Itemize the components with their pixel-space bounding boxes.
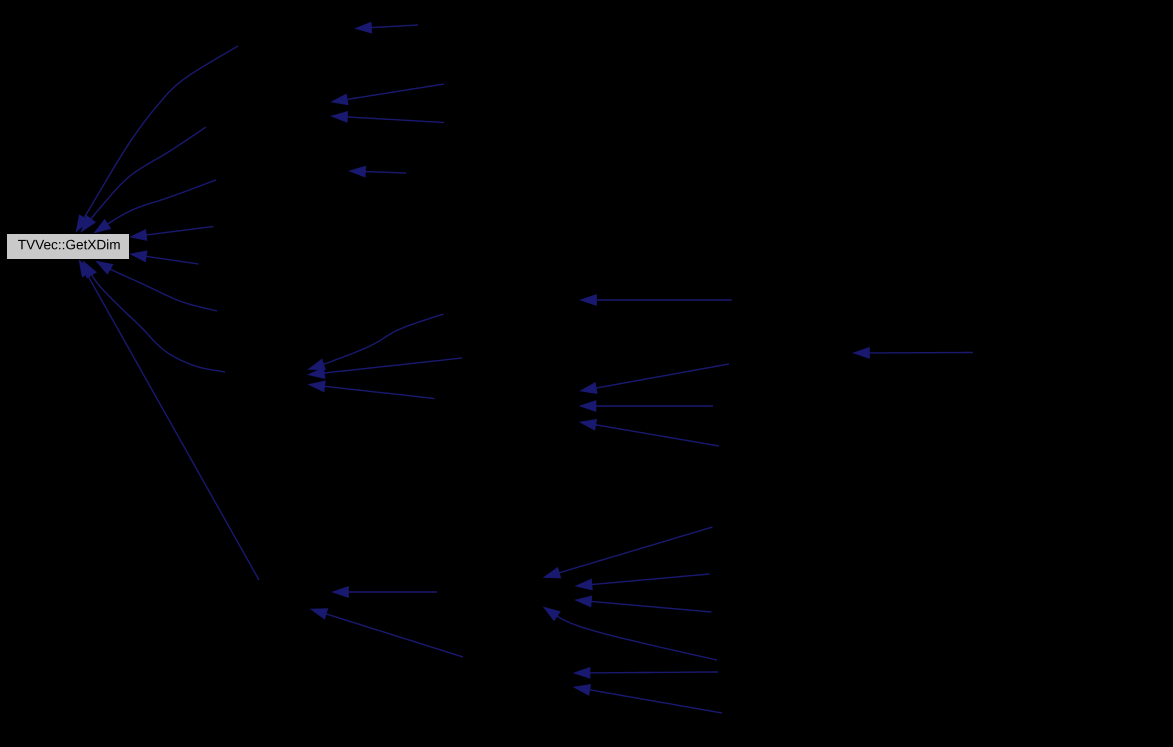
edge A1: caller curve top-1 -> TVVec::GetXDim (76, 46, 238, 232)
edge F2: line into node N3 bottom (311, 609, 464, 657)
edge G2: line into node N4 right upper (576, 574, 710, 590)
edge B1: top arrow (355, 22, 418, 33)
edge B3: upper cluster arrow 2 (331, 111, 444, 122)
edge A3: caller curve top-3 -> TVVec::GetXDim (94, 180, 216, 233)
edge B2: upper cluster arrow 1 (331, 84, 444, 105)
edge H1: horizontal line into node N6 (574, 667, 719, 678)
edge A2: caller curve top-2 -> TVVec::GetXDim (81, 127, 206, 232)
edge A7: caller curve bottom-2 -> TVVec::GetXDim (83, 261, 225, 372)
edge A5: caller line right-2 -> TVVec::GetXDim (130, 251, 199, 264)
edge G1: line into node N4 top (544, 527, 713, 578)
edge F1: horizontal line into node N3 (332, 586, 437, 597)
edge H2: line into node N6 bottom (574, 684, 723, 713)
edge A4: caller line right-1 -> TVVec::GetXDim (130, 227, 214, 241)
edge D1: horizontal line into node N2a (580, 294, 732, 305)
edge G4: curve into node N4 bottom (544, 607, 718, 660)
edge C1: curve into node N1 (308, 314, 443, 370)
edge D3: horizontal line into node N2c (580, 400, 714, 411)
edge C3: line into node N1 (308, 381, 434, 399)
edge D2: line into node N2c top (580, 364, 729, 394)
edge B4: upper short arrow (349, 166, 406, 177)
node: TVVec::GetXDim (highlighted caller-graph root box) (7, 234, 130, 260)
edge A6: caller curve bottom-1 -> TVVec::GetXDim (96, 261, 217, 311)
edge A8: caller long line bottom -> TVVec::GetXDim (79, 260, 259, 580)
edge D4: line into node N2c bottom (580, 419, 720, 446)
edge G3: line into node N4 right lower (575, 596, 712, 612)
edge C2: line into node N1 (308, 358, 462, 379)
edge E1: horizontal line into node N7 (853, 347, 973, 358)
